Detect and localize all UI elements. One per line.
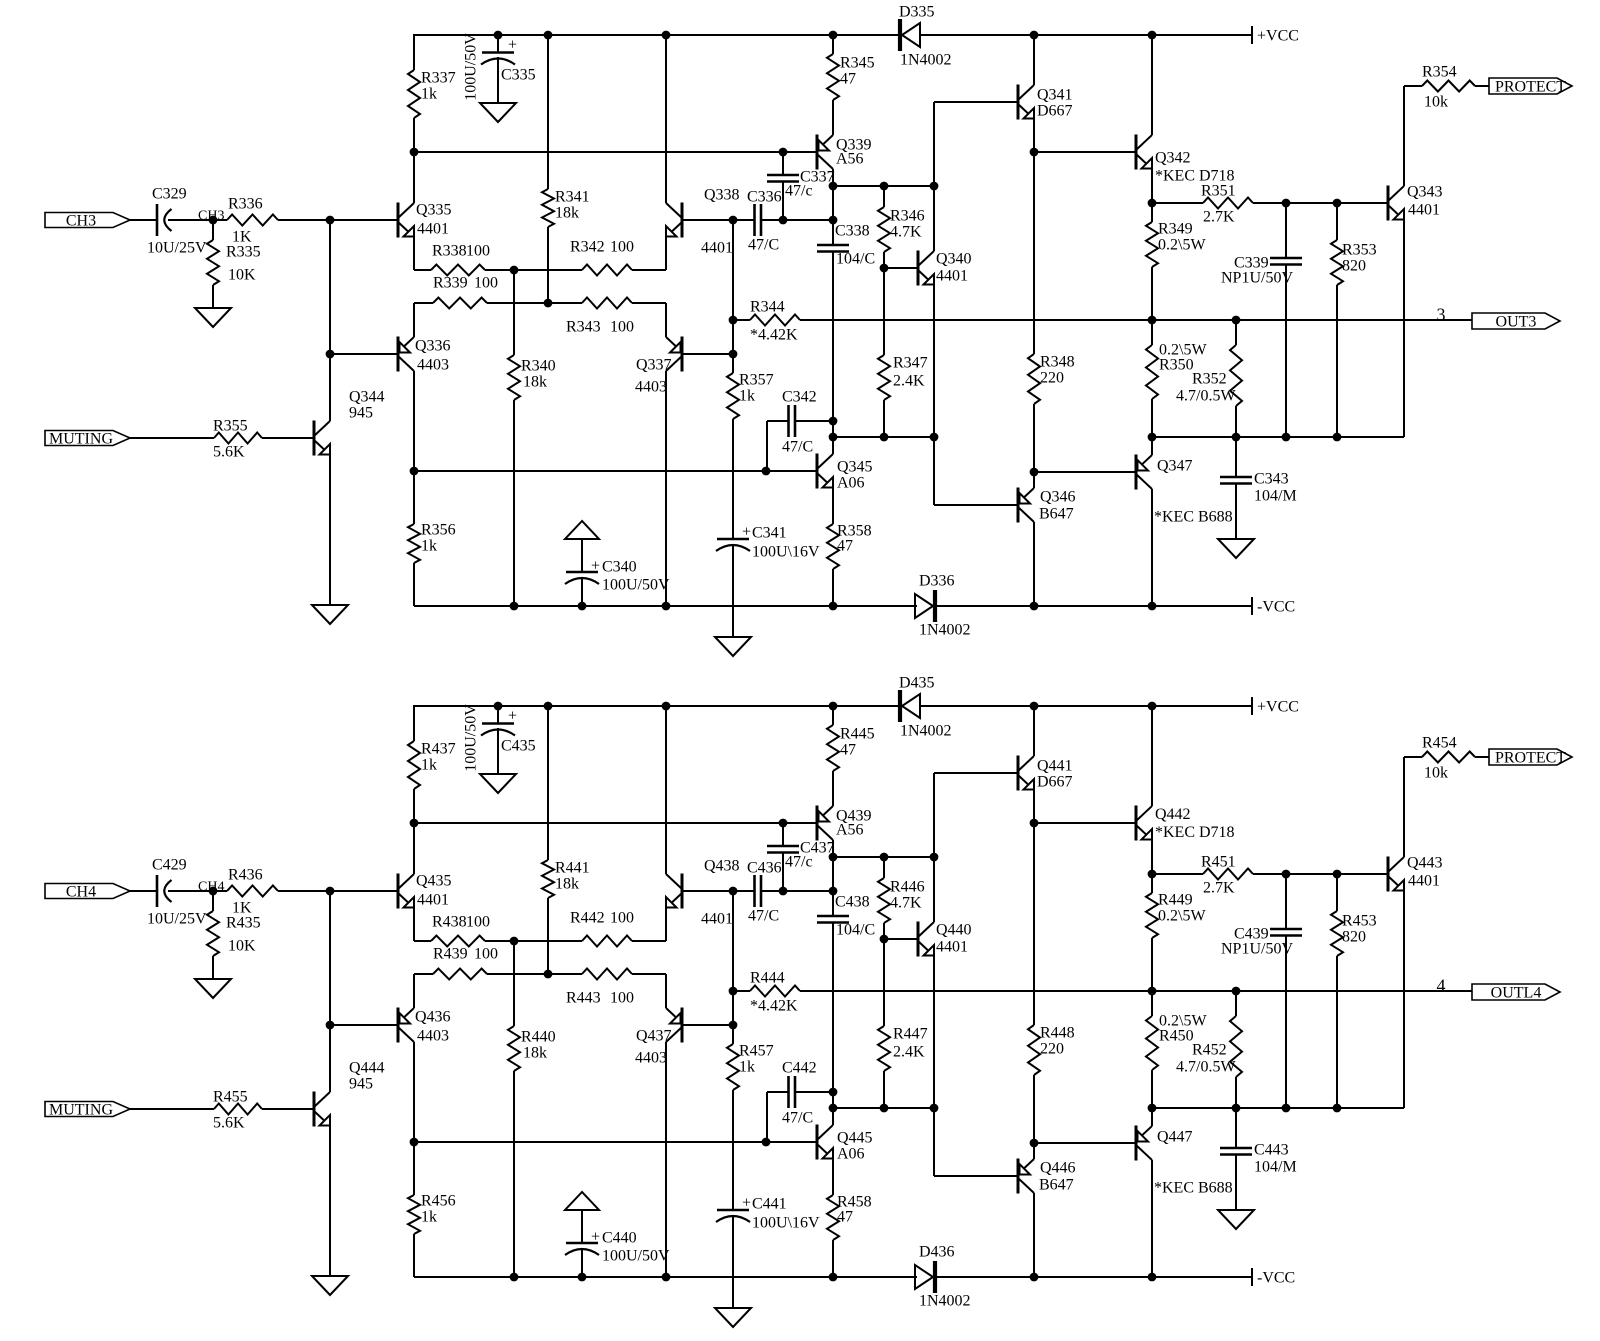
svg-text:+: + bbox=[742, 1195, 751, 1212]
svg-text:R450: R450 bbox=[1159, 1028, 1194, 1045]
svg-text:R445: R445 bbox=[840, 726, 875, 743]
svg-text:Q445: Q445 bbox=[837, 1130, 873, 1147]
svg-text:100: 100 bbox=[610, 990, 634, 1007]
svg-text:2.7K: 2.7K bbox=[1203, 209, 1235, 226]
svg-text:R436: R436 bbox=[228, 867, 263, 884]
svg-text:820: 820 bbox=[1342, 258, 1366, 275]
svg-text:Q338: Q338 bbox=[704, 187, 740, 204]
svg-text:A06: A06 bbox=[837, 475, 865, 492]
svg-text:0.2\5W: 0.2\5W bbox=[1158, 237, 1206, 254]
svg-text:10U/25V: 10U/25V bbox=[147, 240, 207, 257]
svg-text:3: 3 bbox=[1437, 305, 1446, 325]
svg-text:R453: R453 bbox=[1342, 913, 1377, 930]
svg-text:R441: R441 bbox=[555, 860, 590, 877]
svg-text:100U/50V: 100U/50V bbox=[602, 577, 670, 594]
svg-text:Q341: Q341 bbox=[1037, 87, 1073, 104]
svg-text:Q440: Q440 bbox=[936, 922, 972, 939]
svg-text:R456: R456 bbox=[421, 1193, 456, 1210]
svg-text:PROTECT: PROTECT bbox=[1495, 79, 1566, 96]
svg-text:100: 100 bbox=[610, 910, 634, 927]
svg-text:R352: R352 bbox=[1192, 371, 1227, 388]
svg-text:47/C: 47/C bbox=[782, 439, 813, 456]
svg-text:100U/50V: 100U/50V bbox=[463, 704, 480, 772]
svg-text:+: + bbox=[591, 558, 600, 575]
svg-text:2.7K: 2.7K bbox=[1203, 880, 1235, 897]
svg-text:2.4K: 2.4K bbox=[893, 373, 925, 390]
svg-text:1k: 1k bbox=[421, 1209, 437, 1226]
svg-text:Q446: Q446 bbox=[1040, 1160, 1076, 1177]
svg-text:820: 820 bbox=[1342, 929, 1366, 946]
svg-text:4.7/0.5W: 4.7/0.5W bbox=[1176, 388, 1236, 405]
svg-text:100: 100 bbox=[466, 243, 490, 260]
svg-text:R452: R452 bbox=[1192, 1042, 1227, 1059]
svg-text:100U\16V: 100U\16V bbox=[752, 1215, 820, 1232]
svg-text:1k: 1k bbox=[421, 538, 437, 555]
svg-text:C441: C441 bbox=[752, 1196, 787, 1213]
svg-text:Q336: Q336 bbox=[415, 338, 451, 355]
svg-text:Q337: Q337 bbox=[636, 357, 672, 374]
svg-text:47: 47 bbox=[840, 742, 856, 759]
svg-text:104/C: 104/C bbox=[836, 251, 875, 268]
svg-text:C440: C440 bbox=[602, 1230, 637, 1247]
svg-text:+VCC: +VCC bbox=[1257, 699, 1299, 716]
svg-text:-VCC: -VCC bbox=[1257, 599, 1295, 616]
svg-text:C329: C329 bbox=[152, 186, 187, 203]
svg-text:1k: 1k bbox=[739, 1059, 755, 1076]
svg-text:R447: R447 bbox=[893, 1026, 928, 1043]
svg-text:100U/50V: 100U/50V bbox=[602, 1248, 670, 1265]
svg-text:Q340: Q340 bbox=[936, 251, 972, 268]
svg-text:Q443: Q443 bbox=[1407, 855, 1443, 872]
svg-text:Q436: Q436 bbox=[415, 1009, 451, 1026]
svg-text:18k: 18k bbox=[555, 876, 579, 893]
svg-text:R337: R337 bbox=[421, 70, 456, 87]
svg-text:5.6K: 5.6K bbox=[213, 444, 245, 461]
svg-text:R355: R355 bbox=[213, 418, 248, 435]
svg-text:Q447: Q447 bbox=[1157, 1129, 1193, 1146]
svg-text:R348: R348 bbox=[1040, 354, 1075, 371]
svg-text:220: 220 bbox=[1040, 1041, 1064, 1058]
svg-text:4401: 4401 bbox=[701, 911, 733, 928]
svg-text:4403: 4403 bbox=[417, 357, 449, 374]
svg-text:OUTL4: OUTL4 bbox=[1491, 985, 1542, 1002]
svg-text:PROTECT: PROTECT bbox=[1495, 750, 1566, 767]
svg-text:MUTING: MUTING bbox=[49, 1102, 113, 1119]
svg-text:R353: R353 bbox=[1342, 242, 1377, 259]
svg-text:945: 945 bbox=[349, 1076, 373, 1093]
svg-text:C436: C436 bbox=[747, 860, 782, 877]
svg-text:C342: C342 bbox=[782, 389, 817, 406]
svg-text:+: + bbox=[591, 1229, 600, 1246]
svg-text:10k: 10k bbox=[1424, 94, 1448, 111]
svg-text:Q343: Q343 bbox=[1407, 184, 1443, 201]
svg-text:104/M: 104/M bbox=[1254, 488, 1297, 505]
svg-text:CH3: CH3 bbox=[66, 213, 96, 230]
svg-text:*KEC B688: *KEC B688 bbox=[1154, 1180, 1233, 1197]
svg-text:1N4002: 1N4002 bbox=[919, 1293, 971, 1310]
svg-text:1N4002: 1N4002 bbox=[900, 723, 952, 740]
svg-text:*KEC D718: *KEC D718 bbox=[1155, 824, 1235, 841]
svg-text:D667: D667 bbox=[1037, 774, 1073, 791]
svg-text:47/c: 47/c bbox=[785, 183, 813, 200]
svg-text:-VCC: -VCC bbox=[1257, 1270, 1295, 1287]
svg-text:R344: R344 bbox=[750, 299, 785, 316]
svg-text:D436: D436 bbox=[919, 1244, 955, 1261]
svg-text:100: 100 bbox=[610, 319, 634, 336]
svg-text:B647: B647 bbox=[1039, 506, 1074, 523]
svg-text:R457: R457 bbox=[739, 1043, 774, 1060]
svg-text:B647: B647 bbox=[1039, 1177, 1074, 1194]
svg-text:4401: 4401 bbox=[1408, 202, 1440, 219]
svg-text:Q441: Q441 bbox=[1037, 758, 1073, 775]
svg-text:R336: R336 bbox=[228, 196, 263, 213]
svg-text:R354: R354 bbox=[1422, 64, 1457, 81]
svg-text:R356: R356 bbox=[421, 522, 456, 539]
svg-text:4.7K: 4.7K bbox=[890, 895, 922, 912]
svg-text:C438: C438 bbox=[835, 894, 870, 911]
svg-text:R438: R438 bbox=[432, 914, 467, 931]
svg-text:18k: 18k bbox=[523, 374, 547, 391]
svg-text:R350: R350 bbox=[1159, 357, 1194, 374]
svg-text:*4.42K: *4.42K bbox=[750, 998, 798, 1015]
svg-text:10k: 10k bbox=[1424, 765, 1448, 782]
svg-text:Q335: Q335 bbox=[416, 202, 452, 219]
svg-text:100: 100 bbox=[466, 914, 490, 931]
svg-text:4.7K: 4.7K bbox=[890, 224, 922, 241]
svg-text:OUT3: OUT3 bbox=[1496, 314, 1537, 331]
svg-text:100: 100 bbox=[474, 275, 498, 292]
svg-text:47: 47 bbox=[837, 538, 853, 555]
svg-text:47: 47 bbox=[840, 71, 856, 88]
svg-text:R437: R437 bbox=[421, 741, 456, 758]
svg-text:Q438: Q438 bbox=[704, 858, 740, 875]
svg-text:47/C: 47/C bbox=[782, 1110, 813, 1127]
svg-text:100U/50V: 100U/50V bbox=[463, 33, 480, 101]
svg-text:*4.42K: *4.42K bbox=[750, 327, 798, 344]
svg-text:4403: 4403 bbox=[635, 379, 667, 396]
svg-text:C341: C341 bbox=[752, 525, 787, 542]
svg-text:220: 220 bbox=[1040, 370, 1064, 387]
svg-text:R342: R342 bbox=[570, 239, 605, 256]
svg-text:C443: C443 bbox=[1254, 1142, 1289, 1159]
svg-text:100: 100 bbox=[610, 239, 634, 256]
svg-text:4401: 4401 bbox=[417, 221, 449, 238]
svg-text:+: + bbox=[742, 524, 751, 541]
svg-text:Q435: Q435 bbox=[416, 873, 452, 890]
svg-text:0.2\5W: 0.2\5W bbox=[1158, 908, 1206, 925]
svg-text:Q347: Q347 bbox=[1157, 458, 1193, 475]
svg-text:R451: R451 bbox=[1201, 854, 1236, 871]
svg-text:C442: C442 bbox=[782, 1060, 817, 1077]
svg-text:47/c: 47/c bbox=[785, 854, 813, 871]
svg-text:4401: 4401 bbox=[936, 939, 968, 956]
svg-text:945: 945 bbox=[349, 405, 373, 422]
svg-text:+: + bbox=[508, 37, 517, 54]
svg-text:Q346: Q346 bbox=[1040, 489, 1076, 506]
svg-text:104/M: 104/M bbox=[1254, 1159, 1297, 1176]
svg-text:4: 4 bbox=[1437, 976, 1446, 996]
svg-text:10U/25V: 10U/25V bbox=[147, 911, 207, 928]
svg-text:R338: R338 bbox=[432, 243, 467, 260]
svg-text:D435: D435 bbox=[899, 675, 935, 692]
svg-text:R343: R343 bbox=[566, 319, 601, 336]
svg-text:D336: D336 bbox=[919, 573, 955, 590]
svg-text:10K: 10K bbox=[228, 267, 256, 284]
svg-text:R444: R444 bbox=[750, 970, 785, 987]
svg-text:4.7/0.5W: 4.7/0.5W bbox=[1176, 1059, 1236, 1076]
svg-text:R440: R440 bbox=[521, 1029, 556, 1046]
svg-text:C336: C336 bbox=[747, 189, 782, 206]
svg-text:R341: R341 bbox=[555, 189, 590, 206]
svg-text:1k: 1k bbox=[739, 388, 755, 405]
svg-text:100: 100 bbox=[474, 946, 498, 963]
svg-text:2.4K: 2.4K bbox=[893, 1044, 925, 1061]
svg-text:R335: R335 bbox=[226, 244, 261, 261]
svg-text:C340: C340 bbox=[602, 559, 637, 576]
svg-text:1N4002: 1N4002 bbox=[900, 52, 952, 69]
svg-text:C335: C335 bbox=[501, 67, 536, 84]
svg-text:R446: R446 bbox=[890, 879, 925, 896]
svg-text:R346: R346 bbox=[890, 208, 925, 225]
svg-text:+: + bbox=[508, 708, 517, 725]
svg-text:10K: 10K bbox=[228, 938, 256, 955]
svg-text:R340: R340 bbox=[521, 358, 556, 375]
svg-text:A56: A56 bbox=[836, 151, 864, 168]
svg-text:MUTING: MUTING bbox=[49, 431, 113, 448]
svg-text:CH4: CH4 bbox=[66, 884, 96, 901]
svg-text:18k: 18k bbox=[555, 205, 579, 222]
svg-text:4401: 4401 bbox=[701, 240, 733, 257]
svg-text:R439: R439 bbox=[433, 946, 468, 963]
svg-text:R349: R349 bbox=[1158, 221, 1193, 238]
svg-text:R454: R454 bbox=[1422, 735, 1457, 752]
svg-text:Q442: Q442 bbox=[1155, 806, 1191, 823]
svg-text:C429: C429 bbox=[152, 857, 187, 874]
svg-text:5.6K: 5.6K bbox=[213, 1115, 245, 1132]
svg-text:CH3: CH3 bbox=[198, 209, 224, 224]
svg-text:18k: 18k bbox=[523, 1045, 547, 1062]
svg-text:A06: A06 bbox=[837, 1146, 865, 1163]
svg-text:100U\16V: 100U\16V bbox=[752, 544, 820, 561]
svg-text:R351: R351 bbox=[1201, 183, 1236, 200]
svg-text:A56: A56 bbox=[836, 822, 864, 839]
svg-text:NP1U/50V: NP1U/50V bbox=[1221, 270, 1293, 287]
svg-text:4403: 4403 bbox=[417, 1028, 449, 1045]
svg-text:*KEC B688: *KEC B688 bbox=[1154, 509, 1233, 526]
svg-text:47: 47 bbox=[837, 1209, 853, 1226]
svg-text:R443: R443 bbox=[566, 990, 601, 1007]
svg-text:NP1U/50V: NP1U/50V bbox=[1221, 941, 1293, 958]
svg-text:47/C: 47/C bbox=[748, 237, 779, 254]
svg-text:1k: 1k bbox=[421, 757, 437, 774]
svg-text:R435: R435 bbox=[226, 915, 261, 932]
svg-text:Q345: Q345 bbox=[837, 459, 873, 476]
svg-text:Q437: Q437 bbox=[636, 1028, 672, 1045]
svg-text:Q344: Q344 bbox=[349, 389, 385, 406]
svg-text:1k: 1k bbox=[421, 86, 437, 103]
svg-text:R345: R345 bbox=[840, 55, 875, 72]
svg-text:R448: R448 bbox=[1040, 1025, 1075, 1042]
svg-text:Q342: Q342 bbox=[1155, 150, 1191, 167]
svg-text:+VCC: +VCC bbox=[1257, 28, 1299, 45]
svg-text:4401: 4401 bbox=[1408, 873, 1440, 890]
svg-text:C435: C435 bbox=[501, 738, 536, 755]
svg-text:R357: R357 bbox=[739, 372, 774, 389]
svg-text:C343: C343 bbox=[1254, 471, 1289, 488]
svg-text:R442: R442 bbox=[570, 910, 605, 927]
svg-text:R347: R347 bbox=[893, 355, 928, 372]
svg-text:1N4002: 1N4002 bbox=[919, 622, 971, 639]
svg-text:D667: D667 bbox=[1037, 103, 1073, 120]
svg-text:C338: C338 bbox=[835, 223, 870, 240]
svg-text:4401: 4401 bbox=[417, 892, 449, 909]
svg-text:R455: R455 bbox=[213, 1089, 248, 1106]
svg-text:104/C: 104/C bbox=[836, 922, 875, 939]
svg-text:Q444: Q444 bbox=[349, 1060, 385, 1077]
svg-text:CH4: CH4 bbox=[198, 880, 224, 895]
svg-text:R339: R339 bbox=[433, 275, 468, 292]
svg-text:4403: 4403 bbox=[635, 1050, 667, 1067]
svg-text:R449: R449 bbox=[1158, 892, 1193, 909]
svg-text:4401: 4401 bbox=[936, 268, 968, 285]
svg-text:D335: D335 bbox=[899, 4, 935, 21]
svg-text:47/C: 47/C bbox=[748, 908, 779, 925]
